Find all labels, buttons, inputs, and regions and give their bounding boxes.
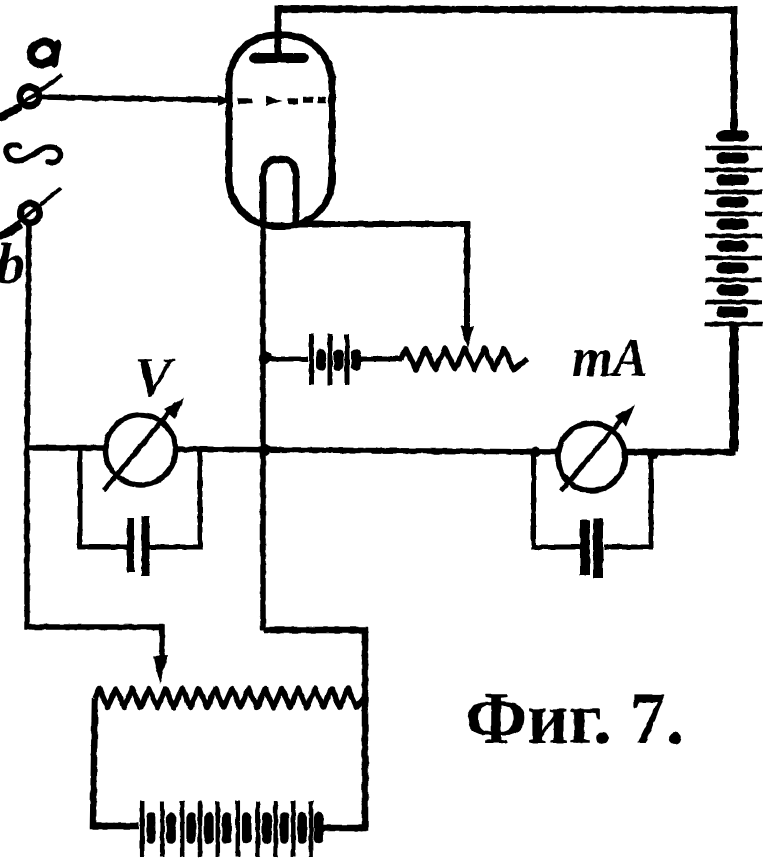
svg-text:mA: mA — [572, 327, 648, 388]
svg-text:Фиг. 7.: Фиг. 7. — [465, 678, 684, 760]
svg-text:b: b — [0, 231, 25, 296]
svg-text:V: V — [134, 347, 176, 409]
